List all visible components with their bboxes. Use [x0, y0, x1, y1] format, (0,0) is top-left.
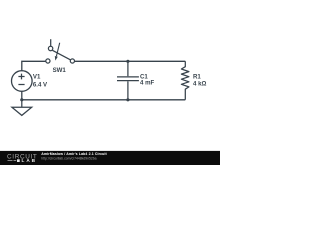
voltage source V1: [11, 71, 32, 92]
svg-text:4 mF: 4 mF: [140, 80, 155, 87]
wire bottom rail: [22, 91, 186, 100]
svg-text:6.4 V: 6.4 V: [33, 81, 48, 88]
svg-text:4 kΩ: 4 kΩ: [193, 80, 206, 87]
svg-text:R1: R1: [193, 73, 201, 80]
footer bar: [0, 151, 220, 165]
resistor R1: [181, 61, 189, 100]
junction dot at V1 bottom: [20, 98, 23, 101]
CircuitLab logo resistor line and LAB: [8, 158, 37, 163]
capacitor C1: [117, 61, 139, 100]
svg-text:LAB: LAB: [22, 158, 37, 163]
switch SW1: [46, 39, 75, 63]
ground: [12, 100, 32, 116]
svg-text:http://circuitlab.com/c/7448kd: http://circuitlab.com/c/7448kd9n52ba: [41, 157, 96, 161]
svg-text:SW1: SW1: [53, 67, 67, 74]
junction dot at C1 bottom: [126, 98, 129, 101]
wire top-left from V1 to SW1 left terminal: [22, 61, 46, 71]
junction dot at C1 top: [126, 60, 129, 63]
wire top-right from SW1 right terminal to R1: [75, 60, 186, 62]
svg-text:AmirMaslow / Amir's Lab4 2.1 C: AmirMaslow / Amir's Lab4 2.1 Circuit: [41, 152, 107, 156]
svg-text:V1: V1: [33, 74, 41, 81]
